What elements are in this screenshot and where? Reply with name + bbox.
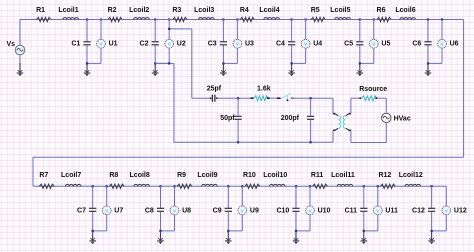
svg-text:C10: C10 xyxy=(276,207,289,214)
capacitor C1 xyxy=(86,20,88,42)
wire Lcoil2-node xyxy=(149,19,155,21)
svg-text:C3: C3 xyxy=(208,41,217,48)
node 1 (junctions) xyxy=(86,18,88,20)
wire Lcoil3-node xyxy=(214,19,223,21)
svg-text:50pf: 50pf xyxy=(220,115,235,122)
svg-text:R4: R4 xyxy=(240,7,249,14)
svg-text:C8: C8 xyxy=(145,207,154,214)
svg-text:Vs: Vs xyxy=(6,41,15,48)
svg-text:Lcoil10: Lcoil10 xyxy=(263,172,287,179)
capacitor C8 xyxy=(160,186,162,207)
transformer secondary lead xyxy=(349,114,351,131)
svg-text:R2: R2 xyxy=(108,7,117,14)
wire gnd tee 5 xyxy=(360,62,374,64)
wire Lcoil4-node xyxy=(280,19,292,21)
ground (section 10) xyxy=(295,231,297,241)
voltmeter U7 xyxy=(106,186,108,206)
svg-text:25pf: 25pf xyxy=(207,85,222,92)
wire gnd tee 4 xyxy=(292,62,306,64)
svg-text:C2: C2 xyxy=(140,41,149,48)
svg-text:C9: C9 xyxy=(213,207,222,214)
svg-text:C6: C6 xyxy=(412,41,421,48)
svg-text:U10: U10 xyxy=(318,207,331,214)
ground (section 12) xyxy=(431,231,433,241)
source Vs xyxy=(19,20,21,46)
svg-text:R8: R8 xyxy=(109,172,118,179)
svg-text:Lcoil6: Lcoil6 xyxy=(395,7,415,14)
capacitor C4 xyxy=(291,20,293,42)
svg-text:C5: C5 xyxy=(344,41,353,48)
wire R2-Lcoil2 xyxy=(121,19,134,21)
capacitor C9 xyxy=(227,186,229,207)
svg-text:1.6k: 1.6k xyxy=(257,85,271,92)
svg-text:C11: C11 xyxy=(345,207,358,214)
svg-text:Lcoil1: Lcoil1 xyxy=(58,7,78,14)
svg-text:C4: C4 xyxy=(276,41,285,48)
voltmeter U6 xyxy=(441,20,443,40)
inductor Lcoil6 xyxy=(400,18,416,20)
wire long return xyxy=(33,156,464,158)
svg-text:U7: U7 xyxy=(114,207,123,214)
inductor Lcoil11 xyxy=(337,184,353,186)
wire gnd tee 10 xyxy=(296,230,310,232)
svg-text:R3: R3 xyxy=(172,7,181,14)
inductor Lcoil3 xyxy=(199,18,215,20)
capacitor C2 xyxy=(154,20,156,42)
capacitor 25pf (series) xyxy=(210,97,211,99)
wire gnd tee 2 xyxy=(155,62,169,64)
inductor Lcoil12 xyxy=(405,184,421,186)
svg-text:Lcoil7: Lcoil7 xyxy=(61,172,81,179)
wire right drop xyxy=(463,20,465,158)
ground (section 9) xyxy=(227,231,229,241)
wire bottom bus xyxy=(33,185,446,187)
resistor R5 xyxy=(292,19,312,21)
resistor R11 xyxy=(313,184,328,188)
capacitor C3 xyxy=(222,20,224,42)
wire gnd tee 12 xyxy=(432,230,447,232)
wire Lcoil5-node xyxy=(350,19,359,21)
svg-text:U11: U11 xyxy=(385,207,398,214)
svg-text:R1: R1 xyxy=(36,7,45,14)
voltmeter U11 xyxy=(377,186,379,206)
svg-text:Lcoil11: Lcoil11 xyxy=(331,172,355,179)
svg-text:R10: R10 xyxy=(243,172,256,179)
svg-text:R7: R7 xyxy=(39,172,48,179)
voltmeter U4 xyxy=(305,20,307,40)
inductor Lcoil7 xyxy=(65,184,81,186)
wire gnd tee 6 xyxy=(428,62,442,64)
resistor R1 xyxy=(20,19,37,21)
transformer secondary winding xyxy=(343,116,345,129)
resistor R12 xyxy=(380,184,395,188)
voltmeter U9 xyxy=(241,186,243,206)
svg-text:C12: C12 xyxy=(412,207,425,214)
capacitor C12 xyxy=(431,186,433,207)
transformer primary winding xyxy=(338,116,340,129)
resistor R6 xyxy=(360,19,377,21)
svg-text:Lcoil2: Lcoil2 xyxy=(129,7,149,14)
capacitor C11 xyxy=(363,186,365,207)
ground (section 2) xyxy=(154,63,156,73)
resistor Rsource xyxy=(359,97,361,99)
wire Rsource to HVac xyxy=(377,97,386,99)
wire 25pf to 1.6k xyxy=(218,97,251,99)
ground (section 5) xyxy=(359,63,361,73)
wire R1-Lcoil1 xyxy=(49,19,63,21)
wire R5-Lcoil5 xyxy=(324,19,335,21)
svg-text:R11: R11 xyxy=(311,172,324,179)
svg-text:Lcoil4: Lcoil4 xyxy=(259,7,279,14)
resistor R4 xyxy=(223,19,240,21)
wire gnd tee 1 xyxy=(87,62,101,64)
source HVac xyxy=(382,113,391,122)
resistor R10 xyxy=(245,184,260,188)
voltmeter U3 xyxy=(236,20,238,40)
capacitor C7 xyxy=(92,186,94,207)
capacitor 50pf xyxy=(237,98,239,116)
svg-text:C7: C7 xyxy=(77,207,86,214)
svg-text:HVac: HVac xyxy=(394,115,411,122)
capacitor 200pf xyxy=(310,98,312,116)
wire HVac bottom to secondary xyxy=(351,142,386,144)
voltmeter U1 xyxy=(100,20,102,40)
capacitor C10 xyxy=(295,186,297,207)
svg-text:R5: R5 xyxy=(311,7,320,14)
svg-text:C1: C1 xyxy=(71,41,80,48)
node 3 (junctions) xyxy=(222,18,224,20)
inductor Lcoil1 xyxy=(63,18,79,20)
svg-text:U12: U12 xyxy=(454,207,467,214)
svg-text:R9: R9 xyxy=(177,172,186,179)
node 7 (junctions) xyxy=(92,185,94,187)
inductor Lcoil10 xyxy=(270,184,286,186)
voltmeter U5 xyxy=(373,20,375,40)
ground (Vs) xyxy=(19,63,21,73)
wire secondary top to Rsource xyxy=(351,97,360,99)
voltmeter U10 xyxy=(309,186,311,206)
voltmeter U12 xyxy=(445,186,447,206)
resistor R9 xyxy=(177,184,192,188)
wire R4-Lcoil4 xyxy=(253,19,264,21)
wire middle bottom return xyxy=(174,141,333,143)
ground (section 11) xyxy=(363,231,365,241)
ground (section 3) xyxy=(222,63,224,73)
svg-text:Lcoil8: Lcoil8 xyxy=(130,172,150,179)
node 2 (junctions) xyxy=(154,18,156,20)
capacitor C6 xyxy=(427,20,429,42)
svg-text:U4: U4 xyxy=(313,41,322,48)
svg-text:R6: R6 xyxy=(377,7,386,14)
node 12 (junctions) xyxy=(431,185,433,187)
ground (section 7) xyxy=(92,231,94,241)
svg-text:200pf: 200pf xyxy=(281,115,300,122)
wire Lcoil6-node xyxy=(416,19,429,21)
node 4 (junctions) xyxy=(291,18,293,20)
svg-text:U9: U9 xyxy=(250,207,259,214)
resistor R7 xyxy=(39,184,54,188)
inductor Lcoil8 xyxy=(134,184,150,186)
node 11 (junctions) xyxy=(363,185,365,187)
voltmeter U8 xyxy=(174,186,176,206)
transformer primary lead xyxy=(332,98,334,114)
svg-text:U6: U6 xyxy=(450,41,459,48)
svg-text:Lcoil12: Lcoil12 xyxy=(399,172,423,179)
svg-text:U1: U1 xyxy=(109,41,118,48)
wire gnd tee 8 xyxy=(161,230,175,232)
svg-text:Rsource: Rsource xyxy=(359,86,387,93)
node 5 (junctions) xyxy=(359,18,361,20)
svg-text:Lcoil3: Lcoil3 xyxy=(194,7,214,14)
node 6 (junctions) xyxy=(427,18,429,20)
resistor R8 xyxy=(109,184,124,188)
wire gnd2 branch down to middle network return xyxy=(155,62,174,64)
inductor Lcoil2 xyxy=(134,18,150,20)
wire gnd tee 11 xyxy=(364,230,378,232)
wire switch to transformer xyxy=(294,97,333,99)
inductor Lcoil4 xyxy=(264,18,280,20)
wire R3-Lcoil3 xyxy=(185,19,198,21)
wire R6-Lcoil6 xyxy=(389,19,400,21)
wire node2 branch to middle network xyxy=(169,28,192,30)
resistor 1.6k xyxy=(251,97,254,99)
wire gnd tee 3 xyxy=(223,62,237,64)
svg-text:U8: U8 xyxy=(182,207,191,214)
resistor R3 xyxy=(155,19,173,21)
node 10 (junctions) xyxy=(295,185,297,187)
ground (section 4) xyxy=(291,63,293,73)
ground (section 8) xyxy=(160,231,162,241)
svg-text:U3: U3 xyxy=(245,41,254,48)
wire gnd tee 9 xyxy=(228,230,242,232)
resistor R2 xyxy=(87,19,108,21)
inductor Lcoil5 xyxy=(335,18,351,20)
svg-text:Lcoil5: Lcoil5 xyxy=(330,7,350,14)
node 8 (junctions) xyxy=(159,185,161,187)
ground (section 6) xyxy=(427,63,429,73)
svg-text:U2: U2 xyxy=(177,41,186,48)
node 9 (junctions) xyxy=(227,185,229,187)
inductor Lcoil9 xyxy=(202,184,218,186)
svg-text:U5: U5 xyxy=(381,41,390,48)
switch SW1 xyxy=(277,97,281,99)
wire Lcoil1-node xyxy=(79,19,88,21)
wire gnd tee 7 xyxy=(93,230,107,232)
voltmeter U2 xyxy=(168,20,170,40)
wire 1.6k to switch xyxy=(270,97,277,99)
svg-text:R12: R12 xyxy=(378,172,391,179)
wire left drop to bottom row xyxy=(32,157,34,186)
ground (section 1) xyxy=(86,63,88,73)
svg-text:Lcoil9: Lcoil9 xyxy=(197,172,217,179)
capacitor C5 xyxy=(359,20,361,42)
wire top bus xyxy=(20,19,464,21)
